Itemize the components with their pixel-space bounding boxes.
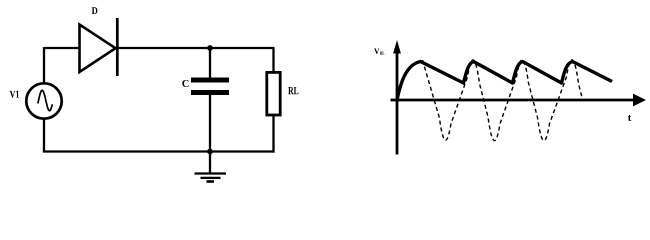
ground symbol <box>195 174 227 182</box>
graph y-axis arrowhead <box>393 40 401 54</box>
graph x-axis <box>391 99 635 102</box>
graph y-axis <box>396 52 399 155</box>
label V1 <box>10 91 19 98</box>
wire capacitor branch top <box>209 48 211 78</box>
wire left vertical bottom <box>43 119 45 153</box>
label V_RL <box>374 49 379 55</box>
dashed input sine wave <box>423 60 583 141</box>
diode cathode bar <box>116 18 119 76</box>
voltage source V1 <box>26 83 61 118</box>
wire left vertical top <box>43 47 45 84</box>
diode D triangle <box>80 25 116 73</box>
wire ground stem <box>209 152 211 174</box>
wire capacitor branch bottom <box>209 94 211 152</box>
label RL <box>288 87 298 94</box>
junction node top <box>207 45 213 51</box>
label V_RL subscript RL <box>380 52 385 55</box>
label C <box>182 80 188 87</box>
wire right vertical bottom <box>272 115 274 153</box>
resistor RL box <box>267 72 280 115</box>
graph x-axis arrowhead <box>633 94 646 107</box>
wire cathode to right corner <box>117 47 275 49</box>
junction node bottom <box>207 149 213 155</box>
capacitor C top plate <box>191 78 229 83</box>
wire anode horizontal <box>44 47 80 49</box>
wire right vertical top <box>272 48 274 73</box>
solid rectified filtered output curve <box>397 62 612 101</box>
wire bottom rail <box>43 150 275 152</box>
label D <box>92 7 98 14</box>
label t <box>628 115 631 121</box>
capacitor C bottom plate <box>191 90 229 95</box>
sine symbol inside V1 <box>38 90 53 110</box>
